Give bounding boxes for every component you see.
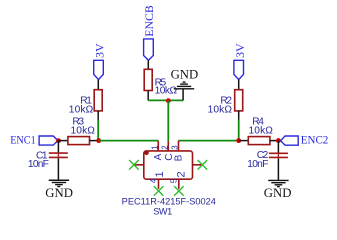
- wire node to R4: [239, 140, 249, 142]
- switch SW1 body: [144, 151, 193, 179]
- svg-text:2: 2: [160, 145, 169, 150]
- SW1 right pin lead: [193, 164, 203, 166]
- no-connect X left: [129, 160, 139, 170]
- wire R5 node to ground: [148, 99, 183, 101]
- svg-text:B: B: [173, 154, 184, 161]
- SW1 corner dot: [144, 150, 149, 155]
- SW1 left pin lead: [134, 164, 144, 166]
- ground symbol middle (flipped): [174, 82, 194, 89]
- wire R5 to net: [147, 91, 149, 101]
- ground symbol left: [49, 180, 69, 186]
- net flag ENC1: [39, 136, 58, 145]
- wire 3V to R2: [238, 80, 240, 90]
- svg-text:10kΩ: 10kΩ: [155, 85, 178, 96]
- SW1 pin C lead (pin 2 top): [167, 141, 169, 151]
- wire R2 to node: [238, 111, 240, 120]
- node junction R2/R4/net: [236, 138, 241, 143]
- wire ground riser: [182, 89, 184, 100]
- resistor R2: [235, 90, 243, 111]
- wire 3V to R1: [97, 80, 99, 90]
- no-connect X right: [198, 160, 208, 170]
- wire junction down to C2: [277, 141, 279, 153]
- svg-text:10kΩ: 10kΩ: [208, 104, 233, 115]
- svg-text:2: 2: [175, 171, 187, 177]
- svg-text:10kΩ: 10kΩ: [249, 126, 274, 137]
- svg-text:1: 1: [151, 145, 160, 150]
- resistor R5: [144, 69, 152, 90]
- svg-text:ENCB: ENCB: [142, 5, 156, 37]
- ground symbol right: [268, 180, 288, 186]
- power flag 3V right: [234, 60, 244, 79]
- capacitor C2: [269, 153, 288, 157]
- resistor R3: [68, 137, 90, 145]
- wire ENCB to R5: [147, 60, 149, 69]
- node junction R3/R1/net: [96, 138, 101, 143]
- svg-text:5: 5: [169, 178, 179, 183]
- wire node to SW1 pin C: [167, 101, 169, 142]
- wire R3 to node: [90, 140, 99, 142]
- svg-text:10nF: 10nF: [247, 159, 268, 170]
- SW1 pin A lead (pin 1 top): [157, 141, 159, 151]
- svg-text:ENC1: ENC1: [10, 133, 36, 147]
- node junction ENC1/C1/R3: [56, 138, 61, 143]
- resistor R1: [94, 90, 102, 111]
- SW1 pin B lead (pin 3 top): [178, 141, 180, 151]
- SW1 pin 4 lead (bottom): [158, 179, 160, 189]
- SW1 pin 5 lead (bottom): [178, 179, 180, 189]
- svg-text:A: A: [153, 153, 164, 160]
- wire junction to R3: [59, 140, 68, 142]
- capacitor C1: [49, 153, 68, 157]
- svg-text:10kΩ: 10kΩ: [69, 104, 94, 115]
- node junction R5/GND/pinC: [166, 98, 171, 103]
- wire C2 to ground: [277, 158, 279, 180]
- svg-text:ENC2: ENC2: [301, 133, 329, 147]
- svg-text:GND: GND: [171, 67, 199, 81]
- wire R4 to node: [270, 140, 279, 142]
- no-connect X pin5: [174, 186, 184, 196]
- no-connect X pin4: [154, 186, 164, 196]
- svg-text:GND: GND: [264, 186, 292, 200]
- resistor R4: [248, 137, 270, 145]
- wire node to SW1 pin A: [99, 140, 159, 142]
- wire junction down to C1: [57, 141, 59, 153]
- wire SW1 pin B to node: [179, 140, 239, 142]
- power flag 3V left: [94, 60, 104, 79]
- svg-text:4: 4: [148, 178, 158, 183]
- svg-text:3V: 3V: [233, 43, 247, 58]
- svg-text:3V: 3V: [92, 43, 106, 58]
- svg-text:GND: GND: [45, 186, 73, 200]
- wire R1 to node: [97, 111, 99, 120]
- wire C1 to ground: [57, 158, 59, 180]
- svg-text:10kΩ: 10kΩ: [71, 126, 96, 137]
- net flag ENCB: [144, 39, 154, 60]
- svg-text:1: 1: [154, 171, 166, 177]
- svg-text:PEC11R-4215F-S0024: PEC11R-4215F-S0024: [122, 197, 216, 207]
- svg-text:SW1: SW1: [153, 207, 172, 217]
- net flag ENC2: [281, 136, 299, 145]
- node junction R4/ENC2/C2: [276, 138, 281, 143]
- svg-text:10nF: 10nF: [28, 159, 49, 170]
- svg-text:3: 3: [170, 145, 179, 150]
